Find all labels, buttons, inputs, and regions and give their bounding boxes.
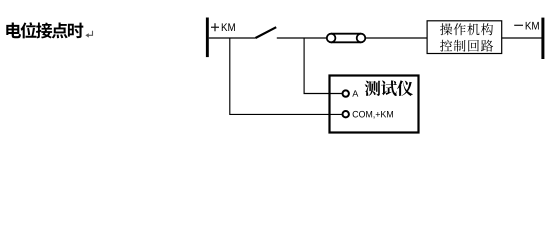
wire box to bus -KM xyxy=(502,37,542,39)
terminal A label xyxy=(352,90,358,96)
box text line1 操作机构 xyxy=(440,23,493,35)
switch contact blade xyxy=(256,27,277,38)
bus bar +KM xyxy=(206,18,209,58)
wire junction drop to terminal A xyxy=(304,38,342,94)
wire bus to switch xyxy=(209,37,256,39)
tester box xyxy=(330,76,419,133)
wire fuse to control box xyxy=(366,37,427,39)
wire switch to fuse xyxy=(277,37,327,39)
wire junction drop to terminal COM xyxy=(230,38,342,114)
label +KM xyxy=(211,23,235,31)
fuse right circle xyxy=(357,34,366,43)
terminal A circle xyxy=(343,90,349,96)
control circuit box xyxy=(427,21,502,54)
bus bar -KM xyxy=(541,18,544,59)
paragraph return mark xyxy=(85,31,92,38)
fuse left circle xyxy=(327,34,336,43)
terminal COM label xyxy=(353,111,393,119)
title text 电位接点时 xyxy=(6,22,83,38)
terminal COM circle xyxy=(343,111,349,117)
label -KM xyxy=(514,22,539,30)
box text line2 控制回路 xyxy=(440,40,493,52)
fuse body lines xyxy=(331,34,361,43)
tester label 测试仪 xyxy=(365,80,413,96)
